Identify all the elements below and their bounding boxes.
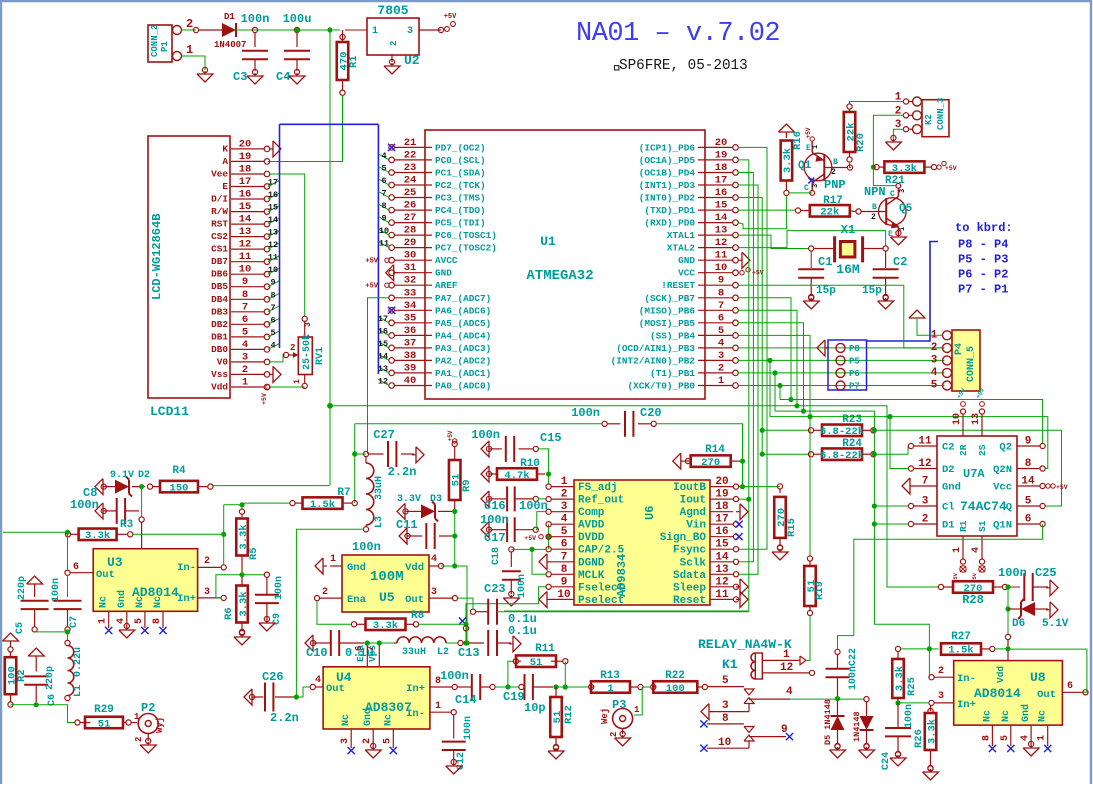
wire PB0 pin1 (738, 385, 945, 387)
crystal X1 16M (833, 236, 836, 262)
resistor R5 3.3k (239, 509, 244, 514)
junction conn5 pin3 (767, 358, 772, 363)
power arrow CONN_5 pin1 (909, 310, 925, 318)
no-connect U6 SignBO (735, 533, 742, 540)
capacitor C12 100n (453, 715, 455, 739)
junction R14 right (740, 459, 745, 464)
svg-text:6: 6 (73, 562, 79, 573)
svg-text:K1: K1 (722, 657, 738, 672)
wire net H3b (775, 411, 929, 649)
junction C27 (352, 451, 357, 456)
svg-text:22: 22 (404, 149, 417, 161)
svg-text:51: 51 (530, 657, 543, 669)
wire C27 L3 tap (355, 453, 366, 455)
wire SS to R19 (809, 417, 811, 556)
svg-text:10: 10 (557, 589, 570, 601)
resistor R8 3.3k (351, 622, 356, 627)
capacitor C6 220p (24, 675, 48, 677)
wire In- net (223, 505, 225, 565)
junction Out-R27 (1005, 646, 1010, 651)
ground C24 (890, 758, 906, 766)
svg-text:+5V: +5V (447, 430, 454, 441)
node Fselect circle (463, 626, 468, 631)
svg-text:VCC: VCC (678, 268, 695, 279)
svg-text:U1: U1 (540, 234, 556, 249)
junction C25 (1005, 584, 1010, 589)
svg-text:4: 4 (315, 675, 321, 686)
no-connect U1 pin34 (388, 307, 395, 314)
svg-text:2: 2 (290, 343, 295, 353)
power +5V R21 (937, 165, 941, 169)
svg-text:100n: 100n (848, 666, 859, 690)
ground R6 (234, 637, 250, 645)
svg-text:13: 13 (715, 564, 729, 576)
transistor Q5 NPN (879, 198, 907, 226)
svg-text:1: 1 (330, 554, 336, 565)
svg-text:P2: P2 (141, 701, 155, 715)
svg-text:P1: P1 (160, 41, 170, 52)
svg-text:18: 18 (715, 501, 729, 513)
svg-text:In-: In- (177, 562, 196, 574)
svg-text:1: 1 (634, 705, 640, 715)
svg-text:3.3k: 3.3k (238, 524, 250, 549)
svg-text:R25: R25 (906, 677, 918, 696)
svg-text:100n: 100n (480, 513, 509, 527)
svg-text:Vin: Vin (686, 520, 706, 532)
ground relay pin3 (701, 704, 709, 720)
resistor R17 22k (795, 208, 800, 213)
svg-text:3: 3 (340, 738, 351, 744)
svg-text:DB7: DB7 (211, 256, 228, 267)
svg-text:DB2: DB2 (211, 319, 228, 330)
power U7 pin10 (961, 402, 966, 407)
svg-text:GND: GND (435, 268, 452, 279)
svg-text:7: 7 (718, 300, 724, 312)
svg-text:!RESET: !RESET (661, 280, 695, 291)
wire K2-3 to gnd (893, 129, 903, 139)
wire diode to C3 C4 (236, 29, 330, 31)
svg-text:37: 37 (404, 337, 417, 349)
U3 Vdd stub (141, 522, 143, 549)
svg-text:2R: 2R (958, 444, 969, 456)
svg-text:LCD11: LCD11 (150, 404, 189, 419)
svg-text:Sclk: Sclk (680, 557, 707, 569)
power +5V U1 AREF (385, 283, 389, 287)
wire +9V rail down (329, 30, 331, 486)
svg-text:14: 14 (1021, 476, 1035, 488)
svg-text:R23: R23 (842, 414, 862, 426)
wire MCLK (532, 549, 546, 574)
svg-text:4: 4 (116, 618, 127, 624)
ground D5 (830, 750, 846, 758)
svg-text:9: 9 (270, 278, 275, 288)
svg-text:P7: P7 (849, 382, 860, 392)
capacitor C10 0.1u (305, 635, 313, 651)
svg-text:8: 8 (1025, 458, 1032, 470)
svg-text:3: 3 (304, 322, 313, 327)
wire R9 to C11 jct (454, 509, 456, 566)
wire conn5 pin4 drop (774, 373, 776, 411)
no-connect U4 pin5 (390, 747, 397, 754)
svg-text:3.3k: 3.3k (926, 719, 938, 744)
svg-text:AVDD: AVDD (578, 520, 605, 532)
svg-text:FS_adj: FS_adj (578, 482, 618, 494)
svg-text:P6: P6 (849, 369, 860, 379)
svg-text:2: 2 (242, 364, 248, 376)
svg-text:DB0: DB0 (211, 344, 228, 355)
svg-text:C13: C13 (458, 646, 480, 660)
svg-text:6: 6 (270, 315, 275, 325)
svg-text:74AC74: 74AC74 (960, 499, 1007, 514)
svg-text:14: 14 (715, 212, 728, 224)
svg-text:P5: P5 (849, 356, 860, 366)
resistor R12 51 (555, 687, 557, 697)
svg-text:12: 12 (378, 377, 388, 387)
svg-text:Q1N: Q1N (993, 520, 1012, 532)
svg-text:Iout: Iout (680, 495, 706, 507)
svg-text:15p: 15p (862, 285, 882, 297)
capacitor C4 100u (294, 27, 299, 32)
svg-text:Nc: Nc (99, 596, 110, 608)
svg-text:20: 20 (715, 137, 728, 149)
capacitor C18 100n (509, 547, 514, 552)
svg-text:C11: C11 (396, 518, 418, 532)
wire R1 to LCD A (268, 95, 343, 162)
junction Iout (746, 497, 751, 502)
svg-text:15p: 15p (816, 285, 836, 297)
wire L2 to C13 (446, 642, 458, 644)
svg-text:17: 17 (715, 514, 728, 526)
svg-text:C12: C12 (456, 752, 467, 770)
node D2-R4 (147, 484, 152, 489)
svg-text:Q2N: Q2N (993, 464, 1012, 476)
svg-text:P4: P4 (954, 343, 965, 355)
svg-text:3: 3 (722, 700, 729, 712)
svg-text:6: 6 (242, 314, 248, 326)
resistor R14 270 (673, 453, 681, 469)
capacitor C5 220p (21, 600, 49, 602)
ground K2-3 (885, 142, 901, 150)
svg-text:5: 5 (1025, 496, 1032, 508)
svg-text:4: 4 (270, 340, 275, 350)
node P1-2 (193, 27, 198, 32)
junction U7 D1 (872, 521, 877, 526)
svg-text:5: 5 (718, 325, 724, 337)
svg-text:11: 11 (239, 251, 252, 263)
ground U2 (384, 66, 400, 74)
svg-text:Out: Out (1037, 689, 1056, 701)
regulator U2 7805 (367, 18, 419, 55)
svg-text:12: 12 (715, 237, 728, 249)
svg-text:(ICP1)_PD6: (ICP1)_PD6 (639, 142, 696, 153)
wire IoutB row (738, 486, 780, 488)
svg-text:15: 15 (378, 339, 388, 349)
junction R5 top (239, 502, 244, 507)
svg-text:2: 2 (718, 362, 724, 374)
svg-text:13: 13 (715, 225, 728, 237)
wire C9 link (242, 574, 265, 576)
svg-text:11: 11 (379, 239, 389, 249)
capacitor C17 100n (481, 522, 489, 538)
svg-text:R24: R24 (842, 438, 862, 450)
svg-text:C10: C10 (306, 646, 328, 660)
wire net H4 (770, 417, 1048, 469)
capacitor C23 0.1u (470, 609, 475, 614)
svg-text:C25: C25 (1035, 566, 1057, 580)
ground C12 (446, 766, 462, 774)
svg-text:U6: U6 (643, 506, 657, 520)
svg-text:150: 150 (170, 482, 189, 494)
svg-text:5: 5 (931, 380, 938, 392)
resistor R23 6.8-22k (808, 428, 813, 433)
svg-text:3.3V: 3.3V (397, 494, 421, 505)
IC U6 AD9834 (574, 480, 710, 605)
node C9 top (264, 572, 269, 577)
resistor R28 270 (938, 584, 943, 589)
junction out net (65, 530, 70, 535)
no-connect U1 pin21 (388, 144, 395, 151)
junction D5 top (835, 696, 840, 701)
resistor R2 100 (8, 647, 13, 652)
svg-text:5: 5 (381, 164, 386, 174)
ground LCD Vss (273, 366, 281, 382)
svg-text:100: 100 (666, 683, 685, 695)
svg-text:27: 27 (404, 212, 417, 224)
svg-text:C23: C23 (484, 582, 506, 596)
connector K2 CONN_3 (922, 100, 949, 137)
no-connect U8 pin1 (1044, 745, 1051, 752)
svg-text:(XCK/T0)_PB0: (XCK/T0)_PB0 (627, 381, 695, 392)
svg-text:31: 31 (404, 262, 417, 274)
wire net H1 (780, 400, 1043, 444)
svg-text:PA5_(ADC5): PA5_(ADC5) (435, 318, 491, 329)
wire U8 Out feedback (1011, 649, 1087, 692)
svg-text:1: 1 (372, 26, 378, 37)
ground U1 GND11 (742, 252, 750, 268)
svg-text:Vdd: Vdd (211, 382, 228, 393)
svg-text:S1: S1 (977, 520, 988, 532)
ground Q5 emitter (890, 237, 906, 245)
svg-text:12: 12 (239, 239, 252, 251)
capacitor C9 100n (266, 577, 268, 595)
svg-text:13: 13 (971, 413, 982, 425)
ground P1 (197, 74, 213, 82)
svg-text:3.3k: 3.3k (238, 591, 250, 616)
wire SS pin5 (738, 335, 810, 416)
svg-text:1: 1 (812, 145, 820, 149)
svg-text:C16: C16 (484, 499, 506, 513)
svg-text:5: 5 (242, 326, 248, 338)
svg-text:3: 3 (431, 587, 437, 598)
svg-text:29: 29 (404, 237, 417, 249)
svg-text:U2: U2 (404, 53, 420, 68)
wire conn5 pin5 drop (779, 386, 781, 400)
svg-text:+5V: +5V (365, 258, 378, 266)
svg-text:+5V: +5V (1056, 484, 1068, 491)
wire R19 to relay coil (807, 616, 810, 661)
svg-text:51: 51 (98, 718, 111, 730)
svg-text:R1: R1 (958, 520, 969, 532)
svg-text:+5V: +5V (365, 283, 378, 291)
svg-text:100n: 100n (571, 406, 600, 420)
svg-text:C27: C27 (373, 428, 395, 442)
svg-text:PA2_(ADC2): PA2_(ADC2) (435, 355, 491, 366)
wire Fselect to C13 node (465, 624, 467, 643)
wire U7 Cl tap (874, 505, 908, 507)
power +5V U1 VCC (740, 271, 744, 275)
power arrow D6 (1050, 602, 1058, 618)
capacitor C16 100n (481, 491, 489, 507)
svg-text:100n: 100n (352, 540, 381, 554)
wire relay pin4 net (790, 698, 864, 700)
svg-text:5: 5 (1000, 735, 1011, 741)
svg-text:PC3_(TMS): PC3_(TMS) (435, 193, 486, 204)
svg-text:Comp: Comp (578, 507, 605, 519)
wire R21 to Q5 collector (873, 167, 896, 186)
wire PB1 pin2 (738, 372, 945, 374)
resistor R4 150 (152, 486, 160, 488)
capacitor C25 100n (1023, 573, 1025, 601)
wire SCK pin8 (738, 298, 791, 400)
svg-text:DGND: DGND (578, 557, 605, 569)
svg-text:AVCC: AVCC (435, 255, 458, 266)
junction R5 bottom (239, 572, 244, 577)
svg-text:PA6_(ADC6): PA6_(ADC6) (435, 305, 491, 316)
svg-text:11: 11 (268, 253, 278, 263)
power arrow P8 (817, 340, 825, 356)
power arrow C5 (27, 576, 43, 584)
IC LCD11 LCD-WG12864B (148, 136, 230, 398)
svg-text:C17: C17 (484, 531, 506, 545)
svg-text:R20: R20 (855, 133, 867, 152)
svg-text:R11: R11 (535, 643, 555, 655)
svg-text:K: K (222, 143, 228, 154)
svg-text:Wej: Wej (600, 708, 610, 724)
svg-text:U8: U8 (1030, 670, 1046, 685)
resistor R1 470 (340, 34, 345, 39)
junction R3 net (221, 532, 226, 537)
wire PD3 pin17 bundle (738, 185, 758, 574)
svg-text:2: 2 (322, 587, 328, 598)
svg-text:15: 15 (715, 539, 729, 551)
wire C23 right to pin19 (497, 611, 749, 613)
svg-text:100n: 100n (904, 704, 915, 728)
IC U3 AD8014 (93, 549, 197, 612)
svg-text:P6 - P2: P6 - P2 (958, 268, 1008, 282)
capacitor C19 10p (519, 684, 524, 689)
svg-text:+5V: +5V (805, 127, 812, 138)
svg-text:K2: K2 (924, 114, 934, 125)
power U7 pin4 (979, 566, 985, 572)
svg-text:15: 15 (715, 200, 728, 212)
power +5V DVDD (539, 535, 543, 539)
svg-text:9.1V: 9.1V (110, 470, 134, 481)
wire U1 PA7 (368, 298, 390, 454)
junction MCLK (529, 547, 534, 552)
svg-text:1: 1 (952, 547, 963, 553)
svg-text:Out: Out (96, 569, 115, 581)
svg-text:DB6: DB6 (211, 269, 228, 280)
IC U1 ATMEGA32 (425, 130, 705, 399)
svg-text:IoutB: IoutB (673, 482, 706, 494)
wire PB3 pin4 (738, 347, 945, 349)
svg-text:SP6FRE, 05-2013: SP6FRE, 05-2013 (619, 58, 748, 74)
power +5V U1 AVCC (385, 258, 389, 262)
wire P1-1 to gnd (182, 56, 206, 70)
svg-text:C24: C24 (881, 752, 892, 770)
svg-text:R22: R22 (665, 670, 685, 682)
capacitor C26 2.2n (244, 689, 252, 705)
inductor L2 33uH (394, 642, 397, 644)
wire R11 drop (564, 661, 566, 687)
svg-text:100n: 100n (471, 428, 500, 442)
svg-text:P8 - P4: P8 - P4 (958, 238, 1008, 252)
wire R3 right (133, 533, 224, 535)
bus entries U1 (378, 154, 389, 160)
bus entries LCD (268, 181, 280, 187)
wire net H2 main (330, 406, 939, 587)
svg-text:R/W: R/W (211, 206, 228, 217)
svg-text:Fselect: Fselect (578, 582, 624, 594)
wire C15 to pin1 (538, 449, 549, 484)
svg-text:In+: In+ (177, 593, 196, 605)
svg-text:C14: C14 (455, 693, 477, 707)
svg-text:(MOSI)_PB5: (MOSI)_PB5 (639, 318, 696, 329)
svg-text:20: 20 (239, 138, 252, 150)
svg-text:2S: 2S (977, 444, 988, 456)
svg-text:A: A (222, 156, 228, 167)
junction SCK H1 (788, 397, 793, 402)
power arrow C6 (28, 648, 44, 656)
svg-text:2: 2 (389, 41, 399, 46)
resistor R7 1.5k (290, 501, 295, 506)
junction C6 bottom (34, 702, 39, 707)
inductor L1 0.22u (65, 640, 70, 645)
no-connect U8 pin5 (1007, 745, 1014, 752)
resistor R9 51 (452, 441, 457, 446)
wire pin6 to C18 (511, 548, 546, 550)
diode D4 1N4148 (866, 702, 868, 717)
svg-text:8: 8 (270, 290, 275, 300)
junction SS H4 (807, 414, 812, 419)
no-connect U3 pin1 (105, 627, 112, 634)
svg-text:Sleep: Sleep (673, 582, 706, 594)
junction D6 (1005, 606, 1010, 611)
svg-text:C20: C20 (640, 406, 662, 420)
svg-text:GND: GND (678, 255, 695, 266)
junction U7 Cl (872, 503, 877, 508)
power arrow C13 (513, 636, 521, 652)
svg-text:2: 2 (931, 342, 938, 354)
svg-text:3: 3 (242, 351, 248, 363)
svg-text:(INT0)_PD2: (INT0)_PD2 (639, 193, 696, 204)
svg-text:LCD-WG12864B: LCD-WG12864B (150, 214, 164, 300)
ground U8 pin4 (1023, 748, 1039, 756)
wire X1 to C1 (810, 251, 812, 268)
connector group P8 P5 P6 P7 (828, 340, 867, 390)
junction R11 left (505, 684, 510, 689)
svg-text:6: 6 (354, 646, 364, 651)
svg-text:6.8-22k: 6.8-22k (820, 426, 864, 438)
svg-text:+5V: +5V (261, 393, 268, 405)
ground C1 (803, 301, 819, 309)
svg-text:8: 8 (152, 618, 163, 624)
svg-text:C6: C6 (47, 694, 58, 706)
svg-text:D6: D6 (1012, 618, 1025, 630)
ground U7 Gnd7 (902, 478, 910, 494)
svg-text:40: 40 (404, 375, 417, 387)
wire U6 Iout jog (738, 498, 749, 500)
